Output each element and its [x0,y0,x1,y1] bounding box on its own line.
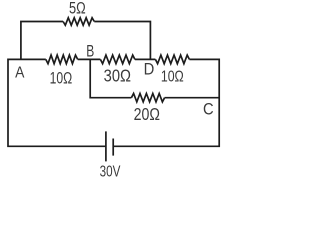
wire between R3 and R4 through node D [135,58,156,60]
wire: rail A left stub, left side, bottom rail to battery positive plate [8,59,106,146]
svg-text:20Ω: 20Ω [134,106,160,125]
svg-text:A: A [15,65,24,82]
resistor R5 20Ω (branch B to C) [131,94,164,102]
wire: rail right stub, right side through node C, bottom rail to battery negative plate [113,59,219,146]
svg-text:B: B [86,43,94,61]
svg-text:D: D [144,61,155,79]
svg-text:30V: 30V [100,162,121,180]
wire top-left: vertical from node A rail up and top rail left segment [21,22,63,60]
svg-text:30Ω: 30Ω [104,67,131,85]
svg-text:10Ω: 10Ω [161,67,184,85]
battery BT1 30V negative plate (short) [112,139,114,156]
wire: node B vertical drop and branch to R5 [90,59,131,97]
wire top rail right segment and vertical down to node D [94,22,150,60]
wire between R2 and R3 through node B [78,58,101,60]
resistor R1 5Ω (top branch) [63,18,94,25]
battery BT1 30V positive plate (long) [105,131,107,161]
svg-text:10Ω: 10Ω [50,70,73,88]
svg-text:C: C [203,101,214,119]
resistor R4 10Ω (right of D) [155,55,189,64]
resistor R2 10Ω (between A and B) [46,55,78,64]
resistor R3 30Ω (between B and D) [100,55,134,64]
wire from R5 to node C on right side [165,97,220,99]
svg-text:5Ω: 5Ω [69,0,86,18]
